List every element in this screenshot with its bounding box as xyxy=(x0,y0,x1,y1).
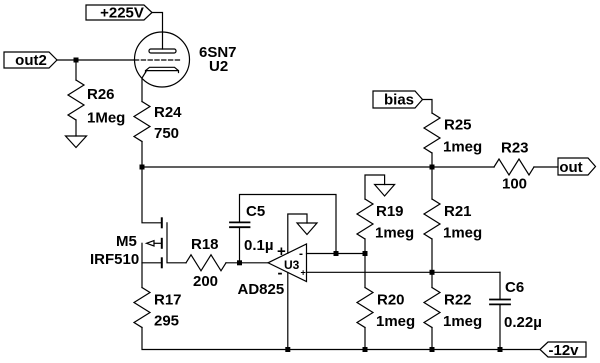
svg-text:+: + xyxy=(301,268,306,278)
port bias xyxy=(373,91,423,109)
port -12v xyxy=(540,342,586,359)
node bus/R25/R21 junction xyxy=(430,165,435,170)
svg-text:R26: R26 xyxy=(87,86,115,103)
resistor R19 xyxy=(357,199,414,242)
svg-text:R18: R18 xyxy=(191,236,219,253)
ground below R26 xyxy=(66,136,87,148)
svg-text:C5: C5 xyxy=(246,203,265,220)
wire C5 top to inverting input xyxy=(240,195,337,254)
tube U2 cathode xyxy=(146,67,179,72)
node R24/bus/drain junction xyxy=(140,165,145,170)
resistor R23 xyxy=(494,140,534,193)
wire junction to R22 xyxy=(431,272,433,287)
svg-text:R17: R17 xyxy=(154,292,182,309)
wire R17 to rail xyxy=(142,328,540,350)
wire junction to R20 xyxy=(364,254,366,288)
svg-text:1meg: 1meg xyxy=(376,313,415,330)
wire noninverting input xyxy=(307,271,501,273)
svg-text:-: - xyxy=(278,265,283,282)
svg-text:U3: U3 xyxy=(284,258,300,272)
tube U2 grid (dashed) xyxy=(135,59,181,61)
op-amp U3 xyxy=(268,244,307,282)
svg-text:C6: C6 xyxy=(505,279,524,296)
wire op-amp V- to rail xyxy=(287,273,289,350)
svg-text:AD825: AD825 xyxy=(238,281,285,298)
wire bus to R21 xyxy=(431,167,433,199)
svg-text:+225V: +225V xyxy=(100,5,144,22)
svg-text:R24: R24 xyxy=(154,104,182,121)
tube U2 plate xyxy=(149,49,176,53)
wire inverting input xyxy=(307,253,366,255)
port out2 xyxy=(4,52,57,69)
capacitor C6 xyxy=(490,279,542,331)
wire out2 to grid xyxy=(57,59,135,61)
svg-text:0.1µ: 0.1µ xyxy=(244,237,274,254)
svg-text:R25: R25 xyxy=(444,117,472,134)
svg-text:IRF510: IRF510 xyxy=(90,251,139,268)
wire R19 to junction xyxy=(364,239,366,254)
wire R21 to noninv junction xyxy=(431,239,433,272)
svg-text:R21: R21 xyxy=(444,203,472,220)
wire R18 to op-amp xyxy=(226,262,268,264)
svg-text:out: out xyxy=(559,159,582,176)
resistor R21 xyxy=(424,199,482,242)
wire R24 to bus xyxy=(141,142,143,168)
svg-text:R20: R20 xyxy=(377,292,405,309)
tube U2 envelope xyxy=(135,32,190,87)
svg-text:0.22µ: 0.22µ xyxy=(504,314,542,331)
wire R19 top to ground xyxy=(365,175,385,199)
ground above R19 xyxy=(375,185,395,197)
svg-text:295: 295 xyxy=(154,313,179,330)
svg-text:U2: U2 xyxy=(209,58,228,75)
resistor R18 xyxy=(186,236,226,290)
svg-text:1Meg: 1Meg xyxy=(87,110,125,127)
svg-text:+: + xyxy=(277,243,286,260)
wire junction to R26 xyxy=(75,60,77,80)
svg-text:100: 100 xyxy=(502,176,527,193)
port out xyxy=(558,158,596,176)
wire bus to drain xyxy=(142,167,161,223)
svg-text:-12v: -12v xyxy=(548,342,579,359)
resistor R20 xyxy=(357,288,415,331)
node R20/rail junction xyxy=(363,347,368,352)
svg-text:M5: M5 xyxy=(116,233,137,250)
wire R23 to out xyxy=(534,166,558,168)
svg-text:1meg: 1meg xyxy=(375,225,414,242)
wire bias to R25 xyxy=(423,100,433,114)
wire R22 to rail xyxy=(431,328,433,350)
node noninv/R21/R22 junction xyxy=(430,270,435,275)
resistor R24 xyxy=(134,102,182,143)
node C6/rail junction xyxy=(498,347,503,352)
wire R25 to bus xyxy=(431,153,433,167)
transistor M5 source bar xyxy=(142,258,162,287)
node C5/inv junction xyxy=(334,251,339,256)
wire noninv to C6 xyxy=(499,272,501,299)
svg-text:1meg: 1meg xyxy=(443,313,482,330)
node R22/rail junction xyxy=(430,347,435,352)
resistor R25 xyxy=(424,113,482,156)
svg-text:R23: R23 xyxy=(501,140,529,157)
power flag +225V xyxy=(86,5,152,22)
svg-text:-: - xyxy=(299,247,303,261)
svg-text:out2: out2 xyxy=(15,52,47,69)
wire C6 to rail xyxy=(499,304,501,349)
capacitor C5 xyxy=(230,203,274,254)
node V-/rail junction xyxy=(285,347,290,352)
wire R26 to ground xyxy=(75,120,77,136)
node inv/R19 junction xyxy=(363,251,368,256)
svg-text:R22: R22 xyxy=(444,292,472,309)
svg-text:1meg: 1meg xyxy=(443,139,482,156)
node out2/R26 junction xyxy=(74,58,79,63)
wire +225V to plate xyxy=(152,13,163,50)
resistor R17 xyxy=(134,288,182,330)
wire C5 bottom xyxy=(239,227,241,263)
svg-text:R19: R19 xyxy=(376,203,404,220)
transistor M5 drain bar xyxy=(161,218,163,227)
svg-text:200: 200 xyxy=(193,273,218,290)
node R18/C5/output junction xyxy=(237,260,242,265)
wire op-amp V+ to ground xyxy=(288,214,307,253)
tube U2 cathode lead xyxy=(142,72,146,102)
ground above op-amp xyxy=(297,223,317,235)
wire R20 to rail xyxy=(364,328,366,350)
transistor M5 bulk arrow xyxy=(142,239,162,263)
resistor R26 xyxy=(68,80,125,127)
svg-text:bias: bias xyxy=(384,92,414,109)
transistor M5 gate xyxy=(167,223,186,263)
svg-text:1meg: 1meg xyxy=(443,225,482,242)
wire bus xyxy=(142,166,494,168)
svg-text:750: 750 xyxy=(154,125,179,142)
resistor R22 xyxy=(424,288,482,331)
